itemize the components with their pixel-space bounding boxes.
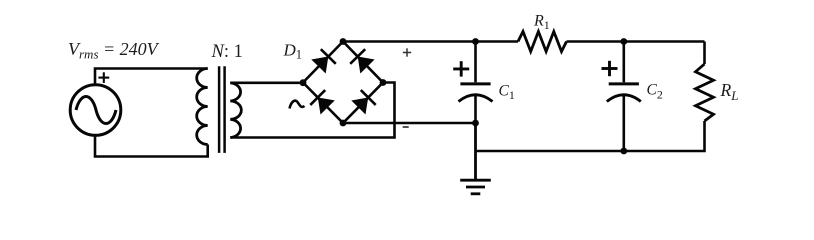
wire secondary bottom to bridge right corner [230, 83, 394, 138]
label RL [720, 80, 739, 103]
polarity plus of C2 [602, 61, 618, 76]
wire RL bottom to bottom rail [476, 121, 705, 151]
diode D1a top-left arm [311, 49, 336, 73]
svg-text:C1: C1 [499, 82, 515, 102]
ac source sine symbol [76, 97, 116, 124]
transformer T1 core [218, 66, 221, 153]
transformer T1 primary winding [197, 69, 208, 145]
svg-text:R1: R1 [533, 13, 550, 32]
ac input squiggle symbol [290, 101, 305, 109]
svg-text:RL: RL [720, 80, 739, 103]
diode D1d bottom-right arm [351, 90, 375, 114]
resistor RL [696, 64, 714, 121]
label C1 [499, 82, 515, 102]
transformer T1 secondary winding [230, 83, 241, 138]
wire source top to transformer primary [95, 69, 208, 86]
capacitor C2 [607, 42, 641, 152]
node bridge top corner [340, 38, 347, 45]
svg-text:C2: C2 [647, 82, 663, 102]
node C1 minus junction [472, 120, 479, 127]
node C2 bottom [620, 148, 627, 155]
svg-text:N: 1: N: 1 [211, 42, 243, 62]
ac source V1 [70, 85, 121, 136]
diode D1c bottom-left arm [310, 90, 335, 114]
wire minus rail bridge to C1 [343, 122, 476, 125]
node bridge right corner [380, 79, 387, 86]
label R1 [533, 13, 550, 32]
ground [460, 180, 491, 194]
node C2 top [620, 38, 627, 45]
node bridge bottom corner [340, 120, 347, 127]
label D1 [283, 40, 303, 61]
polarity plus of C1 [453, 61, 469, 76]
wire plus rail bridge to R1 [343, 40, 518, 43]
svg-text:Vrms = 240V: Vrms = 240V [68, 39, 160, 62]
node bridge left corner [300, 79, 307, 86]
label minus output [403, 126, 409, 128]
resistor R1 [518, 32, 567, 52]
bridge rectifier diamond wires [303, 42, 383, 124]
label Vrms = 240V [68, 39, 160, 62]
node C1 top [472, 38, 479, 45]
wire source bottom to transformer primary [95, 135, 208, 157]
wire C1 to ground [474, 123, 477, 179]
diode D1b top-right arm [350, 49, 374, 73]
wire right rail down [703, 42, 706, 65]
label N:1 [211, 42, 243, 62]
polarity plus of source [98, 72, 109, 83]
wire R1 to top-right corner [567, 40, 705, 43]
wire secondary top to bridge left corner [230, 82, 303, 85]
capacitor C1 [459, 42, 493, 124]
label plus output [403, 48, 411, 56]
label C2 [647, 82, 663, 102]
svg-text:D1: D1 [283, 40, 303, 61]
